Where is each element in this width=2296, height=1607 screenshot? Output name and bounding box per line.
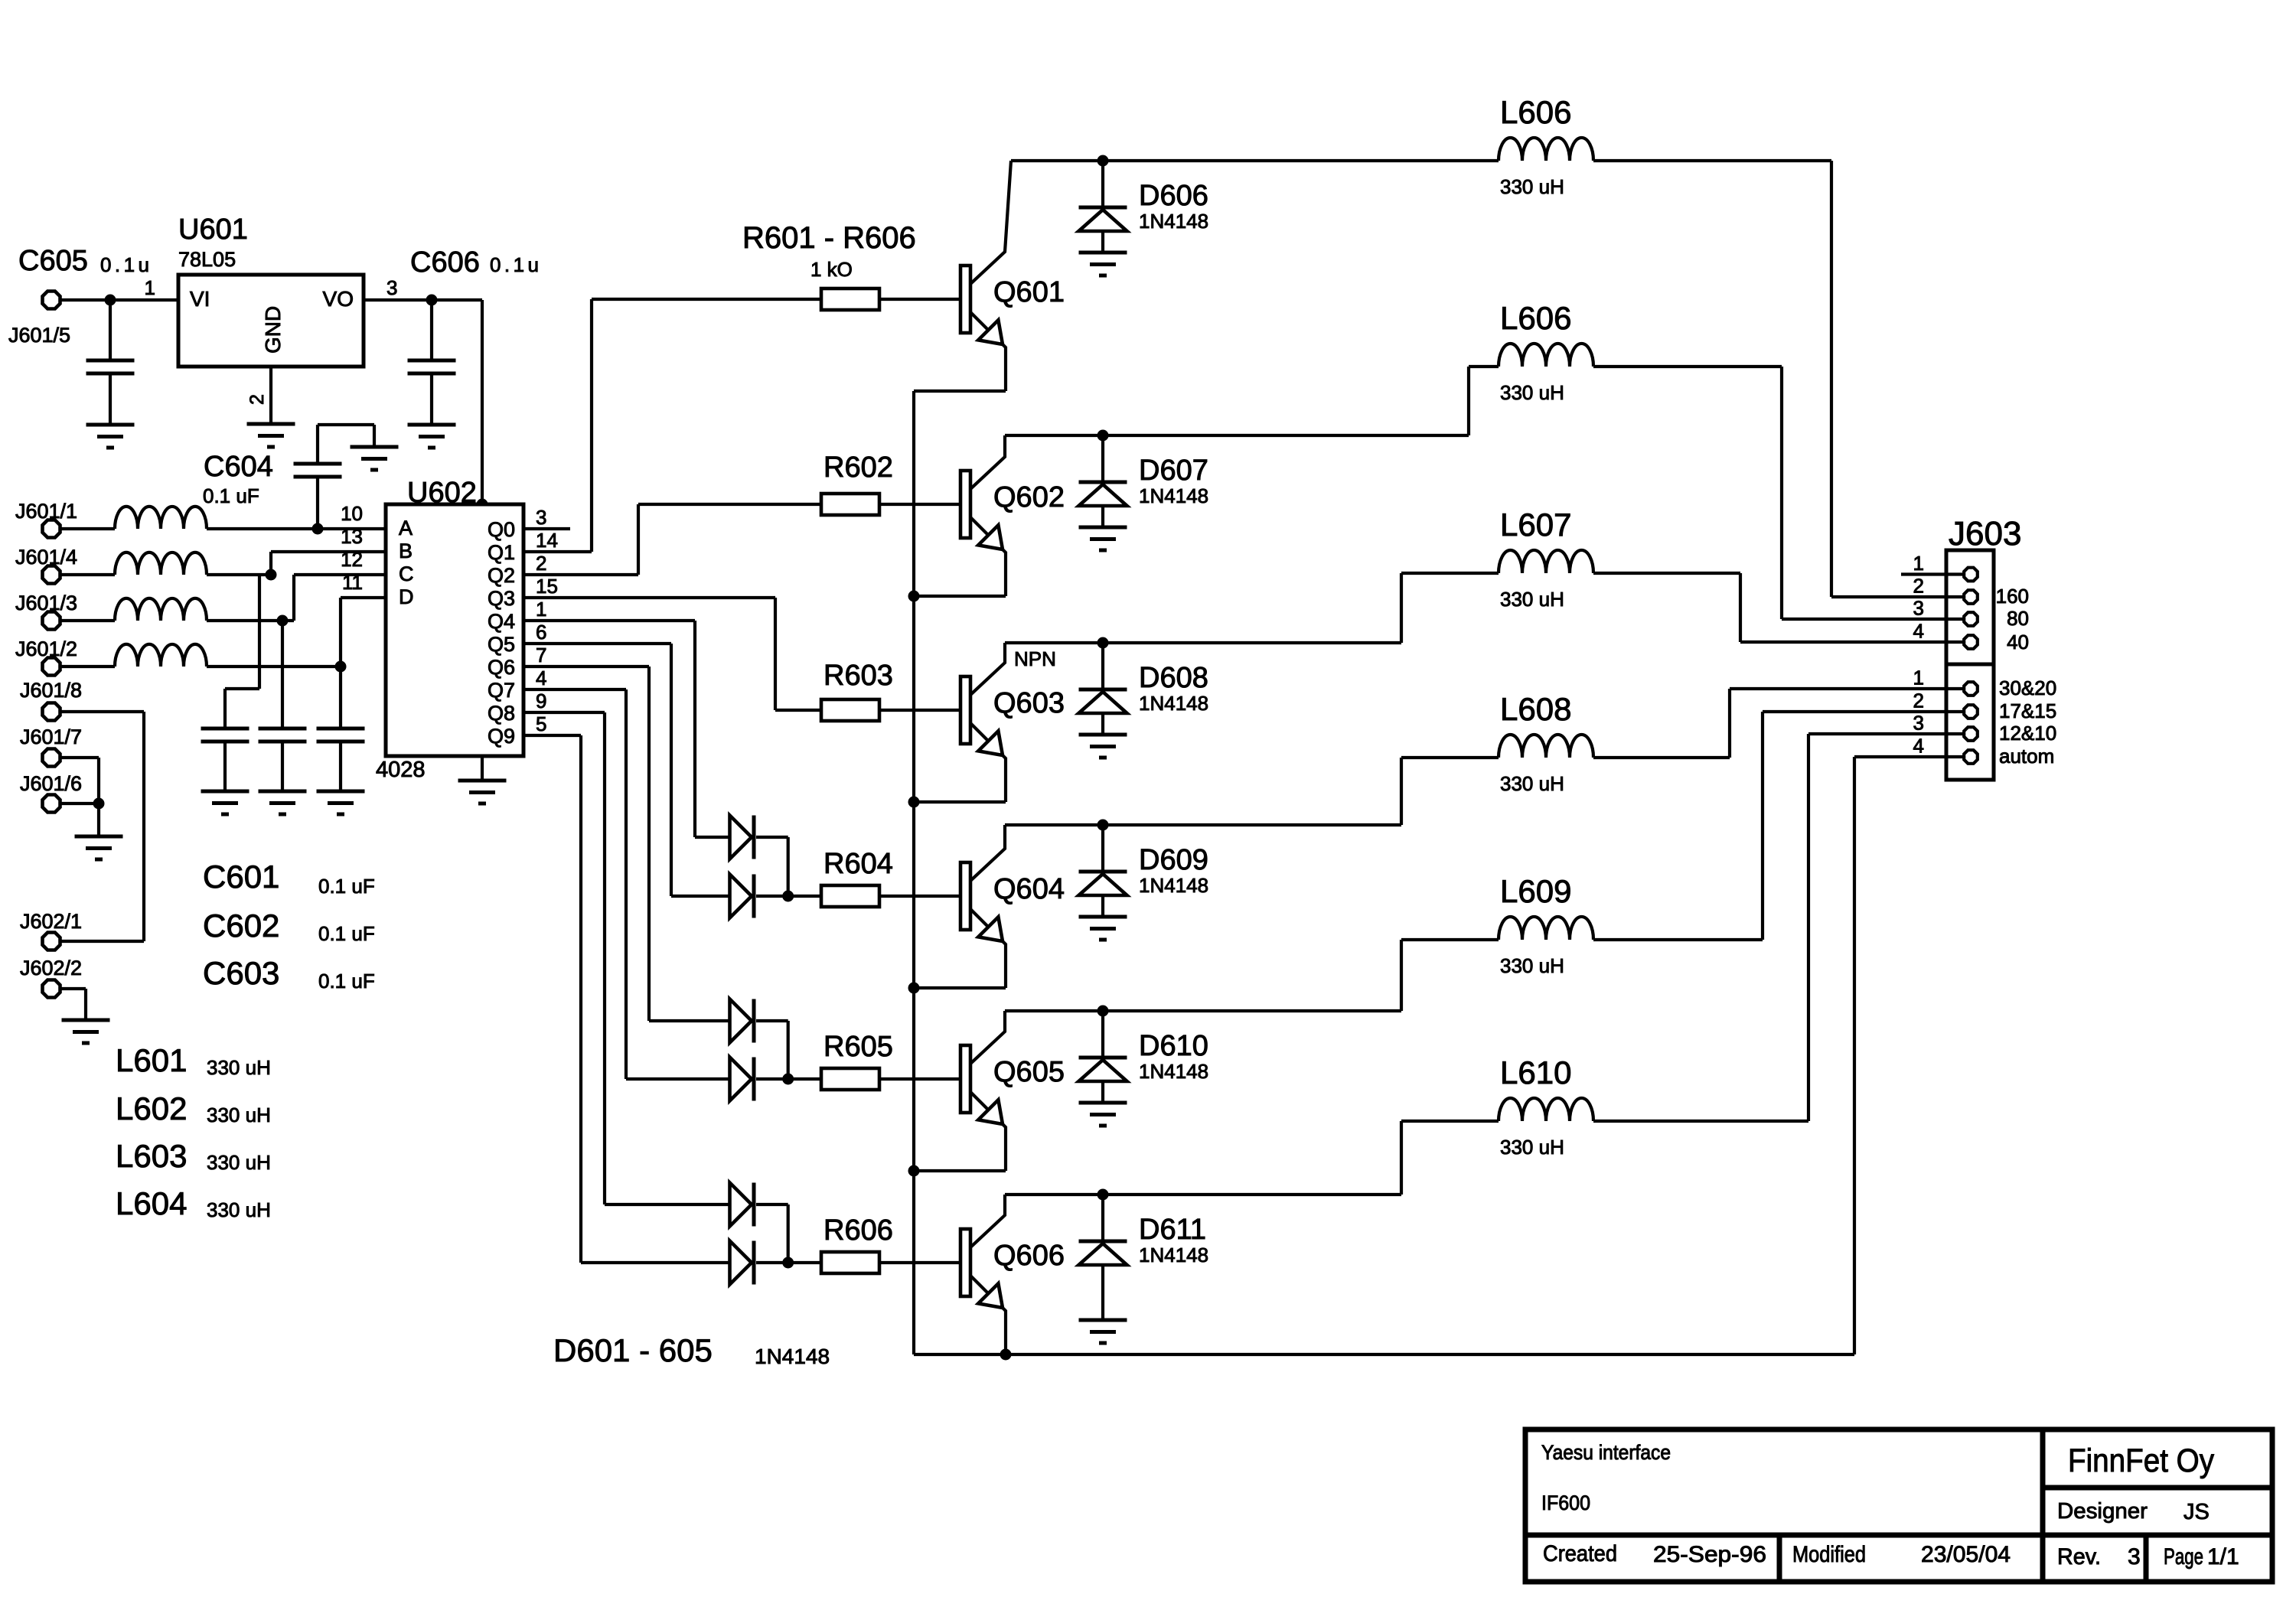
svg-text:25-Sep-96: 25-Sep-96 xyxy=(1653,1542,1766,1567)
svg-text:330 uH: 330 uH xyxy=(207,1198,271,1221)
svg-text:L608: L608 xyxy=(1500,691,1571,727)
svg-text:4028: 4028 xyxy=(376,758,426,782)
svg-text:L610: L610 xyxy=(1500,1054,1571,1090)
svg-text:1: 1 xyxy=(536,598,546,621)
svg-text:Q6: Q6 xyxy=(488,656,515,679)
svg-text:L606: L606 xyxy=(1500,94,1571,130)
svg-text:C606: C606 xyxy=(410,246,480,279)
svg-text:J601/7: J601/7 xyxy=(20,725,82,748)
svg-text:330 uH: 330 uH xyxy=(1500,381,1564,404)
svg-text:3: 3 xyxy=(536,506,546,529)
svg-text:Q604: Q604 xyxy=(993,873,1065,905)
svg-text:D606: D606 xyxy=(1139,180,1208,212)
svg-text:14: 14 xyxy=(536,529,558,552)
svg-text:12: 12 xyxy=(341,548,363,571)
svg-text:0.1 uF: 0.1 uF xyxy=(318,875,375,898)
svg-text:Yaesu interface: Yaesu interface xyxy=(1541,1441,1671,1464)
svg-text:6: 6 xyxy=(536,621,546,644)
svg-text:A: A xyxy=(399,517,413,539)
svg-text:Q9: Q9 xyxy=(488,725,515,748)
svg-text:J601/1: J601/1 xyxy=(15,500,77,523)
svg-text:J603: J603 xyxy=(1949,515,2021,553)
svg-text:Page: Page xyxy=(2164,1544,2203,1570)
svg-text:Designer: Designer xyxy=(2057,1499,2148,1524)
svg-text:0.1 uF: 0.1 uF xyxy=(203,484,259,507)
svg-text:Q7: Q7 xyxy=(488,679,515,702)
svg-text:330 uH: 330 uH xyxy=(1500,588,1564,611)
svg-text:Q2: Q2 xyxy=(488,564,515,587)
svg-text:3: 3 xyxy=(1913,712,1924,735)
svg-text:40: 40 xyxy=(2007,631,2029,654)
svg-text:autom: autom xyxy=(1999,745,2054,768)
svg-text:IF600: IF600 xyxy=(1541,1491,1590,1514)
svg-text:Q1: Q1 xyxy=(488,541,515,564)
svg-text:Created: Created xyxy=(1543,1541,1617,1566)
svg-text:2: 2 xyxy=(246,394,268,405)
svg-text:VI: VI xyxy=(190,287,210,311)
svg-text:0.1 uF: 0.1 uF xyxy=(318,922,375,945)
svg-text:Q605: Q605 xyxy=(993,1056,1065,1088)
svg-text:30&20: 30&20 xyxy=(1999,676,2056,699)
svg-text:C601: C601 xyxy=(203,859,279,895)
svg-text:3: 3 xyxy=(2128,1544,2141,1570)
svg-text:L603: L603 xyxy=(116,1138,187,1174)
svg-text:0.1 uF: 0.1 uF xyxy=(318,970,375,993)
svg-text:13: 13 xyxy=(341,525,363,548)
svg-text:9: 9 xyxy=(536,689,546,712)
svg-text:J601/3: J601/3 xyxy=(15,592,77,614)
svg-text:1N4148: 1N4148 xyxy=(1139,484,1208,507)
svg-text:R603: R603 xyxy=(823,660,893,692)
svg-text:D611: D611 xyxy=(1139,1214,1206,1246)
svg-text:R604: R604 xyxy=(823,848,893,880)
svg-text:D601 - 605: D601 - 605 xyxy=(553,1332,713,1368)
svg-text:R606: R606 xyxy=(823,1214,893,1247)
svg-text:Q601: Q601 xyxy=(993,276,1065,308)
svg-text:Q603: Q603 xyxy=(993,687,1065,719)
svg-text:330 uH: 330 uH xyxy=(207,1103,271,1126)
svg-text:17&15: 17&15 xyxy=(1999,699,2056,722)
svg-text:11: 11 xyxy=(342,571,363,594)
svg-text:NPN: NPN xyxy=(1014,647,1056,670)
svg-text:J602/2: J602/2 xyxy=(20,957,82,980)
svg-text:78L05: 78L05 xyxy=(178,248,236,271)
svg-text:J601/8: J601/8 xyxy=(20,679,82,702)
svg-text:C605: C605 xyxy=(18,245,88,277)
svg-text:15: 15 xyxy=(536,575,558,598)
svg-text:1N4148: 1N4148 xyxy=(1139,1060,1208,1083)
svg-text:C604: C604 xyxy=(204,451,273,483)
svg-text:2: 2 xyxy=(1913,689,1924,712)
svg-text:1: 1 xyxy=(1913,667,1924,689)
svg-text:4: 4 xyxy=(1913,735,1924,758)
svg-text:L606: L606 xyxy=(1500,300,1571,336)
svg-text:L607: L607 xyxy=(1500,507,1571,543)
svg-text:1N4148: 1N4148 xyxy=(1139,1244,1208,1266)
svg-text:1: 1 xyxy=(1913,552,1924,575)
svg-text:330 uH: 330 uH xyxy=(1500,772,1564,795)
svg-text:1/1: 1/1 xyxy=(2207,1544,2239,1570)
svg-text:1N4148: 1N4148 xyxy=(1139,874,1208,897)
svg-text:160: 160 xyxy=(1996,585,2029,608)
svg-text:C603: C603 xyxy=(203,955,279,991)
svg-text:J602/1: J602/1 xyxy=(20,910,82,933)
svg-text:JS: JS xyxy=(2183,1500,2210,1524)
svg-text:L602: L602 xyxy=(116,1090,187,1126)
svg-text:GND: GND xyxy=(261,306,285,354)
svg-text:Q5: Q5 xyxy=(488,633,515,656)
svg-text:2: 2 xyxy=(1913,575,1924,598)
svg-text:Q3: Q3 xyxy=(488,587,515,610)
svg-text:D607: D607 xyxy=(1139,455,1208,487)
svg-text:Q4: Q4 xyxy=(488,610,515,633)
svg-text:330 uH: 330 uH xyxy=(1500,954,1564,977)
svg-text:0.1u: 0.1u xyxy=(490,253,539,276)
svg-text:C: C xyxy=(399,562,414,585)
svg-text:Rev.: Rev. xyxy=(2057,1544,2101,1570)
svg-text:12&10: 12&10 xyxy=(1999,722,2056,745)
svg-text:330 uH: 330 uH xyxy=(1500,1136,1564,1159)
svg-text:1: 1 xyxy=(145,276,155,299)
svg-text:L601: L601 xyxy=(116,1042,187,1078)
svg-text:D610: D610 xyxy=(1139,1030,1208,1062)
svg-text:5: 5 xyxy=(536,712,546,735)
svg-text:1N4148: 1N4148 xyxy=(755,1345,830,1368)
svg-text:D: D xyxy=(399,585,414,608)
svg-text:0.1u: 0.1u xyxy=(100,253,149,276)
svg-text:3: 3 xyxy=(1913,597,1924,620)
svg-text:FinnFet Oy: FinnFet Oy xyxy=(2068,1442,2214,1479)
svg-text:330 uH: 330 uH xyxy=(207,1056,271,1079)
svg-text:B: B xyxy=(399,539,413,562)
svg-text:7: 7 xyxy=(536,644,546,667)
svg-text:80: 80 xyxy=(2007,607,2029,630)
svg-text:J601/2: J601/2 xyxy=(15,637,77,660)
svg-text:L604: L604 xyxy=(116,1185,187,1221)
svg-text:Modified: Modified xyxy=(1792,1542,1866,1567)
svg-text:Q602: Q602 xyxy=(993,481,1065,513)
svg-text:1N4148: 1N4148 xyxy=(1139,692,1208,715)
svg-text:R605: R605 xyxy=(823,1031,893,1063)
svg-text:J601/4: J601/4 xyxy=(15,546,77,569)
svg-text:23/05/04: 23/05/04 xyxy=(1921,1542,2011,1567)
svg-text:330 uH: 330 uH xyxy=(207,1151,271,1174)
svg-text:R601 - R606: R601 - R606 xyxy=(742,221,916,255)
svg-text:2: 2 xyxy=(536,552,546,575)
svg-text:J601/5: J601/5 xyxy=(8,324,70,347)
svg-text:C602: C602 xyxy=(203,908,279,944)
svg-text:U602: U602 xyxy=(407,477,477,509)
svg-text:D608: D608 xyxy=(1139,662,1208,694)
svg-text:Q606: Q606 xyxy=(993,1240,1065,1272)
svg-text:10: 10 xyxy=(341,502,363,525)
svg-text:L609: L609 xyxy=(1500,873,1571,909)
svg-text:Q8: Q8 xyxy=(488,702,515,725)
svg-text:1 kO: 1 kO xyxy=(810,258,853,281)
svg-text:J601/6: J601/6 xyxy=(20,772,82,795)
svg-text:3: 3 xyxy=(386,276,397,299)
svg-text:R602: R602 xyxy=(823,451,893,484)
svg-text:4: 4 xyxy=(536,667,546,689)
svg-text:330 uH: 330 uH xyxy=(1500,175,1564,198)
svg-text:Q0: Q0 xyxy=(488,518,515,541)
svg-text:U601: U601 xyxy=(178,214,248,246)
svg-text:1N4148: 1N4148 xyxy=(1139,210,1208,233)
svg-text:D609: D609 xyxy=(1139,844,1208,876)
svg-text:4: 4 xyxy=(1913,620,1924,643)
svg-text:VO: VO xyxy=(323,287,354,311)
